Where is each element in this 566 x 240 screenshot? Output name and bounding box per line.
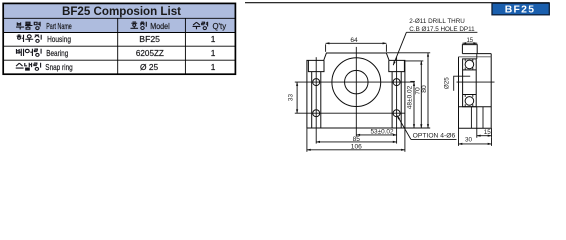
svg-text:48±0.02: 48±0.02 — [407, 85, 414, 109]
housing outline — [307, 53, 405, 128]
side top face line 2 — [459, 56, 492, 58]
dim 85 line — [316, 141, 396, 143]
svg-text:1: 1 — [211, 34, 216, 44]
drill line right hole a — [391, 72, 393, 128]
svg-text:BF25 Composion List: BF25 Composion List — [62, 4, 181, 18]
dim 15 bottom ext — [477, 128, 492, 137]
counterbore box right — [389, 60, 405, 71]
table row line 4 — [4, 59, 236, 61]
korean Model header — [130, 22, 146, 30]
option hole bottom-right — [393, 110, 400, 117]
svg-text:1: 1 — [211, 62, 216, 72]
drill line right hole b — [400, 72, 402, 128]
race tick u1 — [465, 59, 473, 70]
bottom edge with right extension — [307, 127, 430, 129]
korean Housing row — [17, 35, 42, 43]
dim 15 bottom line — [477, 135, 492, 137]
svg-text:Housing: Housing — [47, 34, 71, 44]
option hole top-left — [313, 79, 320, 86]
table row line 2 — [4, 32, 236, 34]
callout underline — [406, 31, 477, 33]
svg-text:53±0.02: 53±0.02 — [370, 128, 393, 135]
pocket floor line — [459, 106, 492, 108]
dim 64 line — [326, 42, 387, 44]
dim 48 line — [413, 82, 415, 128]
svg-text:6205ZZ: 6205ZZ — [136, 48, 164, 58]
callout leader — [393, 32, 406, 65]
top divider line — [245, 2, 550, 4]
option hole bottom-left — [313, 110, 320, 117]
bore circle (housing D52) — [332, 58, 381, 107]
option underline — [411, 138, 457, 140]
table outer border — [3, 3, 235, 74]
svg-text:1: 1 — [211, 48, 216, 58]
lower holes centerline — [295, 112, 405, 114]
side groove line — [482, 107, 484, 129]
dim 64 ext left — [325, 44, 327, 52]
ext left edge down — [306, 128, 308, 152]
vertical centerline — [355, 47, 357, 137]
dim 106 line — [307, 149, 405, 151]
svg-text:BF25: BF25 — [505, 5, 536, 16]
side step line 2 — [476, 54, 478, 59]
dim 70 line — [420, 61, 422, 128]
dia25 tick — [454, 76, 471, 91]
dim 53 line — [356, 134, 397, 136]
side centerline — [457, 81, 495, 83]
svg-text:33: 33 — [288, 94, 295, 102]
side outline left/bottom/right — [459, 54, 492, 129]
dim 30 line — [459, 143, 492, 145]
dim 80 ext top — [386, 52, 430, 54]
korean Bearing row — [16, 49, 41, 57]
svg-text:Part Name: Part Name — [46, 21, 72, 31]
option leader — [397, 116, 411, 140]
bearing ball upper — [465, 60, 474, 69]
side top face line — [462, 53, 491, 55]
dim 15 top line — [462, 42, 477, 44]
dim 70 ext top — [405, 60, 423, 62]
side hump block — [462, 45, 477, 54]
table row line 1 — [4, 17, 236, 19]
svg-text:85: 85 — [353, 136, 361, 143]
bearing outline — [463, 59, 477, 107]
drill line left hole a — [311, 72, 313, 128]
dim 33 line — [296, 82, 298, 113]
counterbore box left — [308, 60, 324, 71]
dim 48 top tick — [410, 80, 415, 82]
option hole top-right — [393, 79, 400, 86]
svg-text:80: 80 — [421, 85, 428, 93]
ext right edge down — [404, 128, 406, 152]
svg-text:Ø 25: Ø 25 — [140, 62, 159, 72]
svg-text:Ø25: Ø25 — [443, 77, 450, 89]
dim 80 line — [427, 53, 429, 128]
bearing ball lower — [465, 97, 474, 106]
korean Qty header — [193, 22, 208, 30]
right hole centerline — [396, 57, 398, 143]
side step line 1 — [470, 107, 472, 129]
svg-text:OPTION 4-Ø6: OPTION 4-Ø6 — [413, 133, 456, 140]
korean Part Name header — [16, 22, 40, 30]
race tick l1 — [465, 95, 473, 107]
table row line 3 — [4, 45, 236, 47]
table column line 2 — [184, 18, 186, 74]
svg-text:15: 15 — [466, 38, 473, 44]
side step line 2b — [476, 107, 478, 129]
svg-text:106: 106 — [351, 144, 362, 151]
left hole centerline — [315, 57, 317, 143]
bearing inner race top line — [463, 69, 477, 71]
dim 30 ext — [459, 128, 492, 146]
dim 64 ext right — [385, 44, 387, 52]
svg-text:Q'ty: Q'ty — [213, 21, 227, 31]
svg-text:BF25: BF25 — [139, 34, 160, 44]
svg-text:Bearing: Bearing — [46, 48, 68, 58]
svg-text:15: 15 — [484, 129, 492, 136]
table column line 1 — [117, 18, 119, 74]
bore circle inner (D25) — [345, 70, 369, 94]
svg-text:Model: Model — [150, 21, 170, 31]
BF25 badge — [492, 3, 549, 15]
table header background — [4, 4, 236, 33]
drill line left hole b — [320, 72, 322, 128]
bearing inner race bottom line — [463, 94, 477, 96]
svg-text:Snap ring: Snap ring — [45, 62, 73, 72]
svg-text:2-Ø11 DRILL THRU: 2-Ø11 DRILL THRU — [409, 18, 465, 25]
svg-text:64: 64 — [350, 37, 358, 44]
korean Snap ring row — [16, 63, 41, 71]
horizontal centerline — [295, 81, 415, 83]
svg-text:30: 30 — [465, 136, 473, 143]
